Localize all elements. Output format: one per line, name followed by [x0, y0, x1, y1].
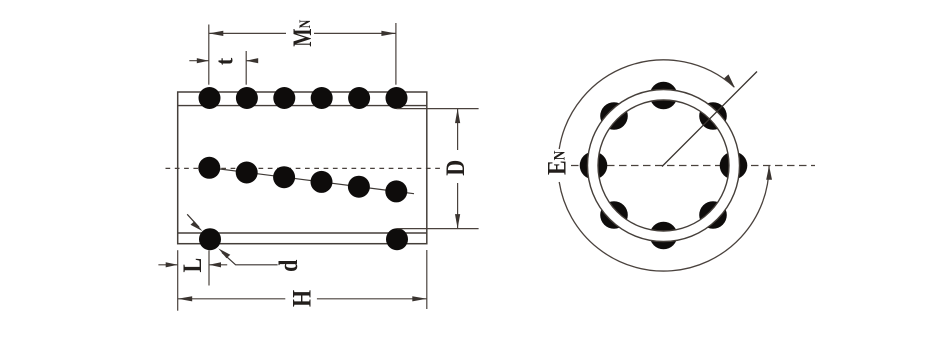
svg-text:H: H — [289, 290, 317, 307]
ball ring (8 balls) — [580, 82, 748, 250]
svg-text:d: d — [276, 259, 304, 272]
middle ball row — [198, 157, 407, 203]
dimension L: extension line right — [208, 250, 210, 285]
EN dimension arc segment upper (47deg to 171deg) — [559, 60, 734, 149]
dimension d: leader line — [222, 253, 278, 265]
dimension D: arrowhead up — [455, 109, 460, 124]
bottom ball right — [386, 228, 408, 250]
dimension L: arrowhead right (pointing left) — [209, 262, 221, 267]
dimension D: arrowhead down — [455, 214, 460, 229]
dimension H: dimension line — [178, 298, 427, 300]
sleeve outline rectangle — [178, 92, 427, 244]
dimension L: arrowhead left (pointing right) — [166, 262, 178, 267]
dimension d: upper leader arrow tail — [187, 214, 199, 227]
dimension L: extension line left (sleeve edge extended) — [177, 250, 179, 311]
bottom band inner line — [178, 232, 427, 234]
dimension t: arrowhead left (pointing right) — [197, 58, 209, 63]
dimension d: upper arrowhead (pointing down-right at ball) — [191, 221, 203, 231]
helix line through middle ball row — [209, 168, 414, 194]
top band inner line — [178, 105, 427, 107]
svg-text:D: D — [443, 160, 471, 176]
inner circle — [598, 100, 729, 231]
dimension t: left arrow tail — [189, 60, 209, 62]
svg-text:L: L — [179, 258, 207, 273]
centerline (dashed) left view — [166, 167, 441, 169]
dimension t: right arrow tail — [246, 60, 257, 62]
dimension L: left arrow tail — [158, 264, 177, 266]
dimension MN: extension line left — [208, 25, 210, 85]
dimension t: extension line right — [245, 51, 247, 85]
dimension H: arrowhead left — [178, 296, 193, 301]
outer circle — [588, 90, 740, 242]
dimension MN: extension line right — [395, 23, 397, 85]
EN arc arrowhead upper (pointing down-right) — [724, 74, 735, 87]
bottom ball left — [199, 228, 221, 250]
dimension MN: arrowhead right — [381, 31, 396, 36]
dimension D: extension line bottom — [397, 228, 479, 230]
dimension MN: dimension line — [209, 32, 396, 34]
dimension D: dimension line — [457, 109, 459, 229]
dimension d: lower arrowhead (pointing up-left at ball) — [218, 248, 230, 258]
sleeve annulus (white ring over balls) — [588, 90, 740, 242]
dimension MN: arrowhead left — [209, 31, 224, 36]
EN dimension arc segment lower (189deg to 360deg) — [559, 166, 769, 272]
svg-text:t: t — [212, 58, 239, 66]
dimension t: arrowhead right (pointing left) — [246, 58, 258, 63]
centerline (dashed) right view — [571, 165, 815, 167]
dimension H: extension line right — [426, 250, 428, 309]
dimension D: extension line top — [397, 108, 479, 110]
EN arc arrowhead lower (pointing up) — [766, 166, 772, 180]
top ball row — [199, 87, 408, 109]
diagonal radius line (45 deg) — [662, 72, 757, 167]
dimension H: arrowhead right — [412, 296, 427, 301]
dimension L: right arrow tail — [209, 264, 227, 266]
